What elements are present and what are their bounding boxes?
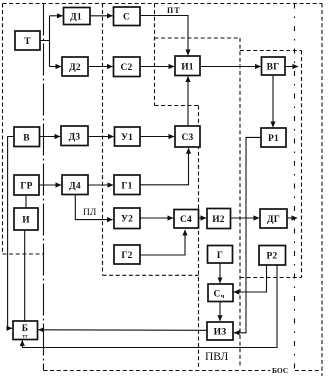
dashed border bottom	[44, 370, 271, 372]
dashed PVL top y=38	[155, 37, 241, 39]
wire C2 to I1	[140, 66, 174, 68]
box I1	[175, 56, 200, 76]
wire T output split	[40, 16, 50, 67]
svg-text:ДГ: ДГ	[267, 215, 280, 225]
svg-text:И2: И2	[212, 215, 225, 225]
box D2	[62, 57, 88, 76]
wire D1 to C	[89, 15, 113, 17]
wire R2 down to B	[22, 265, 277, 347]
wire D2 to C2	[88, 66, 113, 68]
wire C to I1 top (PT)	[140, 16, 188, 56]
box DG	[260, 209, 287, 228]
wire GR to I link	[25, 195, 27, 208]
wire T to D2	[50, 66, 62, 68]
svg-text:ИЗ: ИЗ	[214, 328, 227, 338]
box G2	[114, 245, 140, 264]
svg-text:Д3: Д3	[69, 133, 81, 143]
box R1	[261, 128, 286, 147]
box U1	[115, 127, 141, 146]
svg-text:И1: И1	[181, 63, 194, 73]
wire D3 to U1	[88, 136, 114, 138]
box VG	[262, 57, 286, 75]
dash-dot boundary x=43.5	[43, 4, 45, 371]
dashed PVL right x=240	[239, 38, 241, 368]
wire G1 to C3 bottom	[140, 148, 189, 185]
svg-text:Г: Г	[217, 251, 223, 261]
outer dashed border left	[2, 4, 4, 255]
wire R1 to IZ	[234, 137, 261, 332]
wire T to D1	[50, 15, 63, 17]
dashed right group right x=301.5	[301, 51, 303, 278]
box D3	[61, 126, 88, 146]
dash-dot boundary x=294.5	[294, 4, 296, 371]
svg-text:С2: С2	[120, 63, 132, 73]
wire D4 to G1	[88, 184, 113, 186]
svg-text:ВГ: ВГ	[267, 63, 280, 73]
outer dashed border right	[321, 4, 323, 377]
box D1	[64, 8, 91, 25]
box G	[208, 246, 233, 264]
svg-text:БОС: БОС	[272, 366, 288, 375]
svg-text:С4: С4	[180, 215, 192, 225]
svg-text:С: С	[123, 13, 130, 23]
dashed boundary x=102.5	[102, 4, 104, 276]
box V	[14, 127, 40, 147]
outer dashed border top	[3, 3, 323, 5]
box U2	[114, 208, 140, 229]
box Sch	[208, 284, 233, 302]
svg-text:С3: С3	[181, 133, 193, 143]
outer dashed border bottom-left step	[3, 253, 44, 255]
wire I to B	[24, 230, 26, 321]
box T	[15, 31, 40, 50]
svg-text:Г2: Г2	[121, 251, 132, 261]
dashed border bottom right of BOC	[295, 370, 322, 372]
svg-text:Д2: Д2	[69, 63, 81, 73]
box B	[13, 321, 38, 340]
svg-text:И: И	[22, 216, 30, 226]
wire VG to R1	[272, 75, 274, 127]
wire DG output right	[287, 217, 297, 219]
svg-text:Д1: Д1	[70, 13, 82, 23]
svg-text:Р1: Р1	[268, 134, 279, 144]
svg-text:Д4: Д4	[69, 182, 81, 192]
wire G2 to C4 bottom	[140, 230, 185, 255]
box G1	[114, 175, 140, 195]
wire GR to D4	[39, 184, 61, 186]
box GR	[14, 175, 39, 195]
wire IZ to B	[39, 329, 208, 332]
svg-text:ГР: ГР	[20, 182, 32, 192]
dashed step y=105.5	[155, 105, 199, 107]
svg-text:ПЛ: ПЛ	[83, 208, 97, 218]
wire VG output right	[285, 66, 298, 68]
wire C3 to I1 bottom	[187, 77, 189, 127]
box C3	[175, 126, 200, 147]
svg-text:Р2: Р2	[267, 252, 278, 262]
svg-text:У1: У1	[121, 133, 133, 143]
svg-text:У2: У2	[121, 215, 133, 225]
wire I2 to DG	[231, 217, 260, 219]
box C2	[114, 57, 141, 77]
wire G to Sch	[219, 263, 221, 283]
svg-text:ПТ: ПТ	[167, 6, 181, 15]
svg-text:В: В	[23, 134, 30, 144]
wire V to D3	[39, 136, 60, 138]
dashed middle box bottom y=275	[103, 274, 199, 276]
wire C4 to I2	[199, 217, 207, 219]
wire I1 to VG	[200, 66, 261, 68]
box R2	[259, 246, 286, 266]
box IZ	[207, 322, 233, 340]
box D4	[62, 175, 88, 195]
wire Sch to IZ	[219, 302, 221, 321]
svg-text:Б: Б	[22, 324, 28, 334]
svg-text:ПВЛ: ПВЛ	[205, 351, 229, 363]
box I	[14, 208, 38, 230]
wire U2 to C4	[140, 217, 173, 219]
dashed right group top y=50.5	[240, 50, 302, 52]
svg-text:Г1: Г1	[121, 182, 132, 192]
svg-text:Т: Т	[24, 37, 31, 47]
dashed boundary x=154.5	[154, 4, 156, 106]
wire U1 to C3	[140, 136, 174, 138]
wire R2 to Sch	[234, 265, 267, 292]
box C4	[174, 210, 199, 229]
wire V feedback to B	[8, 137, 14, 329]
box C	[114, 7, 141, 26]
dashed PVL left x=198.5	[198, 106, 200, 369]
box I2	[207, 209, 231, 229]
dashed right group bottom y=277.5	[240, 277, 302, 279]
svg-text:тт: тт	[23, 335, 28, 340]
wire D4 to U2 (PL)	[75, 195, 112, 220]
